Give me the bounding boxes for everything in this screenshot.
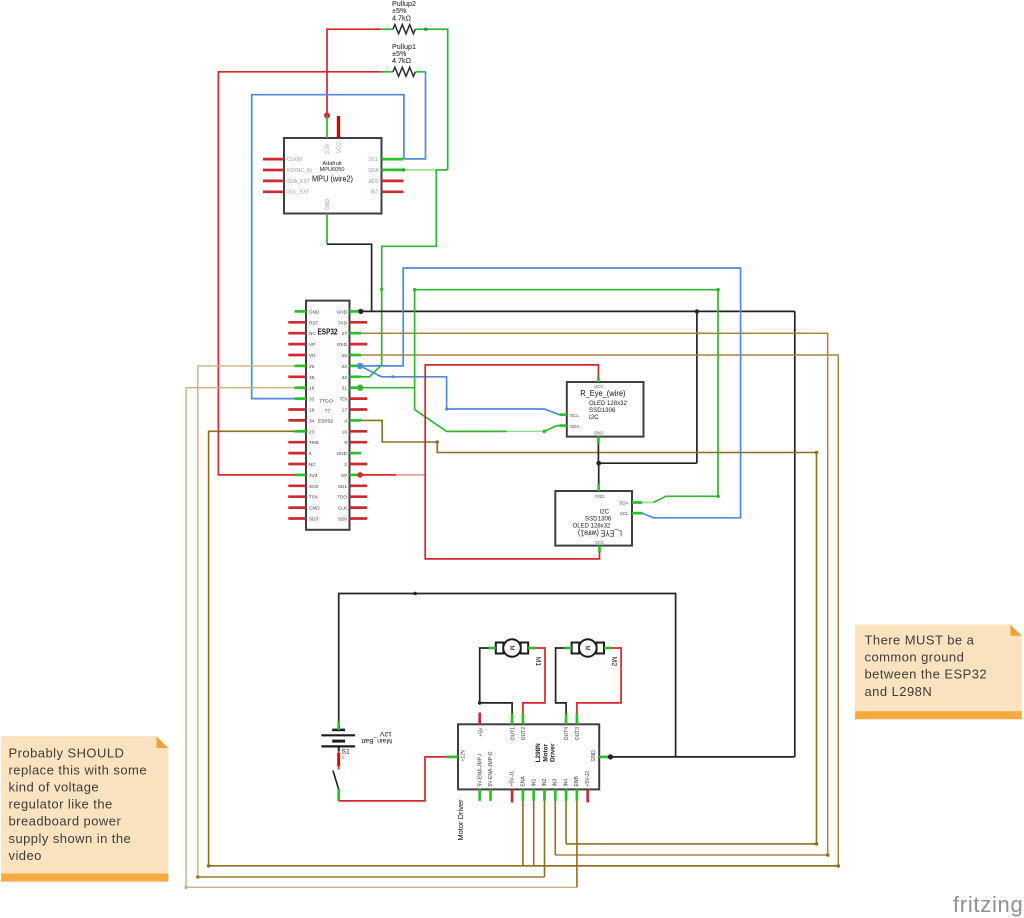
svg-text:OLED 128x32: OLED 128x32 <box>573 522 611 529</box>
U5 pin +5V-J2 red stub bottom <box>586 789 589 802</box>
switch S1 blade <box>333 771 339 790</box>
node blue dot ESP32 pin22 <box>357 363 363 369</box>
svg-text:T7: T7 <box>325 408 331 414</box>
motor M1 left terminal plate <box>496 643 504 654</box>
U4 pin SDA green stub right <box>632 501 642 504</box>
svg-text:ESP32: ESP32 <box>318 328 338 337</box>
wire brown IN4 down to pin4 net <box>565 801 567 844</box>
U2 label pin names right column <box>337 309 348 521</box>
svg-text:between the ESP32: between the ESP32 <box>865 667 988 682</box>
svg-text:5V: 5V <box>341 473 348 478</box>
svg-text:VCC: VCC <box>595 540 604 545</box>
svg-text:RST: RST <box>309 320 319 325</box>
wire pin26 bottom run darker overlay <box>198 876 545 878</box>
U5 pin +12V green stub left <box>446 756 458 759</box>
svg-text:22: 22 <box>342 364 348 369</box>
display U3 R_Eye OLED body box <box>567 382 644 437</box>
svg-text:+5V-J2: +5V-J2 <box>585 771 591 787</box>
svg-text:34: 34 <box>309 418 315 423</box>
svg-text:I2C: I2C <box>589 414 599 421</box>
svg-text:25: 25 <box>342 353 348 358</box>
battery BT1 Main_Batt plates <box>321 730 355 747</box>
node brown dot pin4 bend <box>435 440 439 444</box>
svg-text:OUT2: OUT2 <box>521 727 527 741</box>
node blue bend dot mid <box>445 408 448 411</box>
svg-text:GND: GND <box>337 451 348 456</box>
wire GND branch black down to OLED gnd link <box>696 311 698 463</box>
wire brown ENB down to pin18 net <box>576 801 578 887</box>
U1 pin GND green wire bottom <box>326 214 328 245</box>
op-amp U1 MPU6050 body box <box>284 138 382 214</box>
node black bend dot on battery loop <box>413 592 417 596</box>
wire I2C SDA diagonal into R_Eye SDA <box>544 426 559 432</box>
U1 pin SDA green lead <box>382 169 404 172</box>
U3 pin GND green stub bottom <box>597 437 600 444</box>
svg-text:M: M <box>508 646 514 651</box>
svg-text:TMS: TMS <box>309 440 319 445</box>
node green endpoint dot on SDA drop <box>380 288 383 291</box>
svg-text:RXD: RXD <box>337 342 348 347</box>
note sticky right text <box>865 633 988 699</box>
node brown dot pin4 right bend <box>815 451 819 455</box>
svg-text:common ground: common ground <box>865 650 965 665</box>
wire SDA green segment to pullup2 drop <box>436 169 447 171</box>
motor M2 right terminal plate <box>596 643 604 654</box>
wire black R_Eye GND down to junction <box>597 444 599 463</box>
svg-text:SD3: SD3 <box>309 517 319 522</box>
wire Pullup2 right lead green down to MPU SDA <box>416 29 448 170</box>
wire blue Pullup1 to MPU SCL <box>404 72 426 159</box>
svg-text:IN4: IN4 <box>564 779 570 787</box>
svg-text:19: 19 <box>309 408 315 413</box>
wire ESP32 pin23 brown to left <box>209 431 839 866</box>
svg-text:21: 21 <box>342 386 348 391</box>
motor M1 right terminal plate <box>521 643 529 654</box>
svg-text:5: 5 <box>309 451 312 456</box>
resistor R1 label Pullup1 ±5% 4.7kΩ <box>392 42 416 65</box>
svg-text:GND: GND <box>594 431 604 436</box>
node brown corner dot pin18 net <box>184 886 188 890</box>
node GND junction dot right <box>695 309 699 313</box>
svg-text:TCK: TCK <box>309 495 319 500</box>
U3 pin SCL green stub <box>560 413 567 416</box>
wire black motor M2 to OUT4 <box>556 648 567 714</box>
U3 text OLED 128x32 SSD1306 I2C <box>589 400 627 421</box>
battery BT1 bottom stub <box>338 746 340 751</box>
node red dot ESP32 5V pin <box>357 472 363 478</box>
wire black junction to riser <box>599 462 697 464</box>
motor M2 green terminal stubs <box>565 647 572 650</box>
svg-text:SO2: SO2 <box>309 484 319 489</box>
U1 label pin names left <box>287 157 312 196</box>
svg-text:GND: GND <box>309 309 320 314</box>
node black dot M1 loop corner <box>478 701 482 705</box>
svg-text:AD0: AD0 <box>369 179 379 185</box>
svg-text:ESP32: ESP32 <box>318 419 334 425</box>
svg-text:5V-ENA-JMP-I: 5V-ENA-JMP-I <box>478 754 484 787</box>
U2 right red stub pins TXD RXD TDI 17 16 0 2 SD1 TDO CLK SD0 <box>350 322 368 518</box>
node GND dot at ESP32 GND pin <box>358 309 363 314</box>
U1 pin SCL green lead <box>382 158 404 161</box>
wire red thick segment above switch <box>337 753 340 766</box>
U1 pin SDA_EXT red stub <box>263 180 284 183</box>
U5 pin GND green stub right <box>599 756 610 759</box>
svg-text:0: 0 <box>344 440 347 445</box>
transistor U2 ESP32 TTGO T7 body box <box>306 301 350 530</box>
U3 pin SDA green stub <box>560 424 567 427</box>
node green dot SDA right corner <box>716 288 720 292</box>
wire I2C SCL blue from ESP32 pin22 up and over to L_EYE SCL <box>360 268 740 518</box>
U1 label pin names right <box>368 157 379 196</box>
svg-text:23: 23 <box>309 429 315 434</box>
wire brown IN3 down to pin27 net <box>554 801 556 855</box>
U2 left green stub pins GND 26 18 33 23 3V3 <box>295 311 307 475</box>
wire black battery positive loop to L298N GND row <box>339 594 676 757</box>
node SDA bend dot <box>402 168 405 171</box>
wire ESP32 pin26 brown to left <box>198 366 545 877</box>
wire blue MPU SCL up-over to ESP32 pin33 <box>252 95 404 399</box>
svg-text:SDA_EXT: SDA_EXT <box>287 179 310 185</box>
svg-text:VP: VP <box>309 342 315 347</box>
svg-text:32: 32 <box>342 375 348 380</box>
wire brown ENA down to pin23 net <box>522 801 524 866</box>
node brown corner dot pin25 net <box>837 864 841 868</box>
wire red switch to L298N +12V <box>339 757 447 801</box>
svg-text:17: 17 <box>342 408 348 413</box>
svg-text:and L298N: and L298N <box>865 684 933 699</box>
svg-text:GND: GND <box>337 309 348 314</box>
svg-text:fritzing: fritzing <box>953 892 1023 917</box>
node green dot SDA bottom right corner <box>716 495 720 499</box>
U1 pin CLKIN red stub <box>263 158 284 161</box>
wire I2C SDA green from ESP32 pin21 up and over to L_EYE SDA <box>360 387 415 389</box>
wire SDA light green segment <box>404 169 437 171</box>
svg-text:ENA: ENA <box>521 776 527 787</box>
svg-text:FSYNC_IN: FSYNC_IN <box>287 168 312 174</box>
note sticky left body <box>1 736 168 881</box>
svg-text:SCL: SCL <box>620 511 629 516</box>
driver U5 L298N body box <box>458 724 599 789</box>
U4 label SDA SCL <box>619 501 629 516</box>
svg-text:M: M <box>584 646 590 651</box>
svg-text:R_Eye_(wire): R_Eye_(wire) <box>580 389 626 398</box>
wire I2C SDA green lower branch to R_Eye SDA <box>415 410 507 432</box>
U2 right green stub pins GND 27 25 22 32 21 4 GND 5V <box>350 311 362 475</box>
svg-text:+12V: +12V <box>461 749 467 761</box>
resistor R2 Pullup2 left green lead <box>382 28 393 30</box>
wire I2C SDA light green tail into L_EYE SDA <box>642 502 653 504</box>
svg-text:Motor Driver: Motor Driver <box>456 799 465 841</box>
U1 pin VCC thick dark red stub <box>337 116 340 138</box>
wire red battery to switch <box>338 751 340 770</box>
node green dot ESP32 pin21 <box>357 385 363 391</box>
svg-text:CMD: CMD <box>309 506 320 511</box>
svg-text:IN3: IN3 <box>553 779 559 787</box>
svg-text:breadboard power: breadboard power <box>9 814 122 829</box>
svg-text:NC: NC <box>309 462 316 467</box>
wire ESP32 5V light red segment <box>396 474 425 476</box>
motor M2 left terminal plate <box>572 643 580 654</box>
svg-text:18: 18 <box>309 386 315 391</box>
svg-text:IN1: IN1 <box>531 779 537 787</box>
wire ESP32 5V red to VCC rail <box>360 474 396 476</box>
svg-text:SCL_EXT: SCL_EXT <box>287 190 309 196</box>
svg-text:VN: VN <box>309 353 316 358</box>
svg-text:replace this with some: replace this with some <box>9 762 148 777</box>
wire ESP32 pin4 brown to L298N IN4 <box>361 420 817 844</box>
motor M1 green terminal stubs <box>489 647 496 650</box>
wire I2C SDA green riser and long top run <box>415 290 718 503</box>
svg-text:video: video <box>9 848 42 863</box>
U3 label SCL SDA <box>570 413 580 429</box>
U1 pin AD0 red stub <box>382 180 404 183</box>
svg-text:IN2: IN2 <box>542 779 548 787</box>
battery BT1 top pin green <box>337 722 340 730</box>
svg-text:GND: GND <box>595 494 605 499</box>
node black junction dot OLED gnd <box>596 461 601 466</box>
wire ESP32 pin25 brown to right <box>361 355 838 866</box>
node blue bend tick <box>391 375 394 378</box>
U2 left red stub pins RST NC VP VN 35 19 34 TMS 5 NC SO2 TCK CMD SD3 <box>288 322 306 518</box>
wire VCC rail red vertical with branches to both OLED VCC <box>425 365 599 559</box>
svg-text:27: 27 <box>342 331 348 336</box>
svg-text:TXD: TXD <box>338 320 348 325</box>
wire green MPU SDA down-around to ESP32 pin32 <box>361 170 436 377</box>
wire 3.3V rail red: Pullup2 left lead to MPU 3.3V junction <box>327 29 382 115</box>
svg-text:L_EYE (wire1): L_EYE (wire1) <box>578 529 622 538</box>
resistor R1 Pullup1 left green lead <box>382 71 393 73</box>
wire black motor M1 to OUT1 <box>480 648 512 714</box>
svg-text:16: 16 <box>342 429 348 434</box>
svg-text:TTGO: TTGO <box>319 399 333 405</box>
wire Pullup1 right green lead <box>416 71 426 73</box>
wire I2C SCL blue lower branch to R_Eye SCL <box>360 366 559 415</box>
svg-text:SDA: SDA <box>570 424 580 429</box>
svg-text:SSD1306: SSD1306 <box>589 407 616 414</box>
U3 pin VCC green stub top <box>597 377 600 382</box>
display U4 L_EYE OLED body box (rotated) <box>555 491 632 546</box>
U4 text I2C SSD1306 OLED 128x32 <box>573 509 612 530</box>
motor M2 body circle <box>579 639 597 657</box>
svg-text:There MUST be a: There MUST be a <box>865 633 975 648</box>
motor M1 body circle <box>503 639 521 657</box>
svg-text:SCL: SCL <box>570 413 579 418</box>
U5 bottom green stubs JMPI JMPO ENA IN1 IN2 IN3 IN4 ENB <box>480 789 577 801</box>
svg-text:4.7kΩ: 4.7kΩ <box>392 56 412 65</box>
note sticky right body <box>855 624 1022 719</box>
svg-text:supply shown in the: supply shown in the <box>9 831 132 846</box>
node tiny red mark right of battery stub <box>342 757 344 759</box>
svg-text:33: 33 <box>309 397 315 402</box>
U2 title TTGO T7 ESP32 <box>318 399 334 425</box>
wire I2C SDA light segment <box>507 430 544 432</box>
wire black junction down to L_EYE GND <box>598 463 600 483</box>
svg-text:CLK: CLK <box>338 506 348 511</box>
svg-text:M2: M2 <box>610 657 617 667</box>
svg-text:TDO: TDO <box>337 495 347 500</box>
node brown corner dot pin4 bottom <box>815 842 819 846</box>
wire GND rail black from ESP32 GND right to far right <box>361 310 795 312</box>
svg-text:5V-ENA-JMP-O: 5V-ENA-JMP-O <box>488 751 494 786</box>
svg-text:Main_Batt: Main_Batt <box>361 737 392 744</box>
svg-text:L298N: L298N <box>535 743 542 763</box>
wire ESP32 pin27 brown to right <box>361 333 828 855</box>
svg-text:SDA: SDA <box>368 168 379 174</box>
svg-text:3.3V: 3.3V <box>325 143 331 154</box>
svg-text:SD0: SD0 <box>338 517 348 522</box>
node green dot R_Eye SDA branch <box>543 430 547 434</box>
U1 pin INT red stub <box>382 190 404 193</box>
svg-text:VCC: VCC <box>594 384 603 389</box>
svg-text:Driver: Driver <box>549 743 556 762</box>
svg-text:OLED 128x32: OLED 128x32 <box>589 400 627 407</box>
node green dot SDA top corner <box>413 288 417 292</box>
wire red motor M1 to OUT2 <box>523 648 545 714</box>
svg-text:26: 26 <box>309 364 315 369</box>
wire brown IN1 down to pin25 net <box>533 801 535 866</box>
svg-text:+5V-J1: +5V-J1 <box>510 771 516 787</box>
U4 pin GND green stub top <box>597 484 600 492</box>
svg-text:SDA: SDA <box>619 501 629 506</box>
svg-text:GND: GND <box>591 750 597 762</box>
svg-text:GND: GND <box>325 199 331 211</box>
node brown corner dot pin23 net <box>207 864 211 868</box>
U5 top green stubs OUT1 OUT2 OUT4 OUT3 <box>512 714 577 725</box>
wire black MPU GND to ESP32 GND rail <box>327 244 372 311</box>
svg-text:MPU (wire2): MPU (wire2) <box>312 175 353 184</box>
svg-text:2: 2 <box>344 462 347 467</box>
node brown corner dot pin26 net <box>196 875 200 879</box>
switch S1 bottom green terminal <box>337 789 340 801</box>
U1 pin FSYNC_IN red stub <box>263 169 284 172</box>
resistor R1 Pullup1 zigzag body <box>393 67 415 76</box>
svg-text:OUT1: OUT1 <box>511 727 517 741</box>
svg-text:3V3: 3V3 <box>309 473 318 478</box>
svg-text:12V: 12V <box>379 730 392 737</box>
svg-text:OUT4: OUT4 <box>564 727 570 741</box>
svg-text:35: 35 <box>309 375 315 380</box>
U1 title Adafruit MPU6050 <box>320 161 345 173</box>
svg-text:4: 4 <box>344 418 347 423</box>
svg-text:SD1: SD1 <box>338 484 348 489</box>
node black dot GND pin <box>608 754 613 759</box>
svg-text:INT: INT <box>370 190 378 196</box>
svg-text:kind of voltage: kind of voltage <box>9 780 100 795</box>
svg-text:SCL: SCL <box>369 157 379 163</box>
wire GND far right black down to L298N GND row <box>794 311 796 757</box>
svg-text:+5V: +5V <box>478 727 484 737</box>
resistor R2 pin numbers 1 2 <box>387 23 422 28</box>
svg-text:4.7kΩ: 4.7kΩ <box>392 13 412 22</box>
svg-text:S1: S1 <box>342 749 351 756</box>
svg-text:ENB: ENB <box>574 776 580 787</box>
U4 pin VCC green stub bottom <box>598 546 601 552</box>
svg-text:M1: M1 <box>534 657 541 667</box>
node brown corner dot pin27 net <box>826 853 830 857</box>
wire brown IN2 down to pin26 net <box>544 801 546 877</box>
U5 pin +5V red stub top <box>478 713 481 725</box>
svg-text:VCC: VCC <box>336 142 342 153</box>
note sticky left text <box>9 745 148 863</box>
U5 pin +5V-J1 red stub bottom <box>511 789 514 802</box>
svg-text:MPU6050: MPU6050 <box>320 167 345 173</box>
U5 title L298N Motor Driver rotated <box>535 743 556 763</box>
resistor R2 Pullup2 zigzag body <box>393 25 415 34</box>
svg-text:CLKIN: CLKIN <box>287 157 302 163</box>
wire black L298N GND to right riser <box>611 756 795 758</box>
U1 pin SCL_EXT red stub <box>263 190 284 193</box>
node green joint tick pullup2 lead <box>424 28 427 31</box>
U4 pin SCL green stub right <box>632 512 642 515</box>
wire red motor M2 to OUT3 <box>577 648 621 714</box>
resistor R2 label Pullup2 ±5% 4.7kΩ <box>392 0 416 22</box>
svg-text:Probably SHOULD: Probably SHOULD <box>9 745 125 760</box>
wire Pullup1 left lead red to ESP32 3V3 <box>218 72 381 475</box>
U2 label pin names left column <box>309 309 320 521</box>
svg-text:NC: NC <box>309 331 316 336</box>
svg-text:TDI: TDI <box>339 397 347 402</box>
U1 pin 3.3V green wire top <box>326 116 328 139</box>
resistor R1 pin numbers 1 2 <box>387 66 422 71</box>
node junction 3.3V (red dot) <box>324 113 330 119</box>
svg-text:regulator like the: regulator like the <box>9 797 113 812</box>
svg-text:OUT3: OUT3 <box>575 727 581 741</box>
wire ESP32 pin18 brown to left <box>186 388 577 888</box>
